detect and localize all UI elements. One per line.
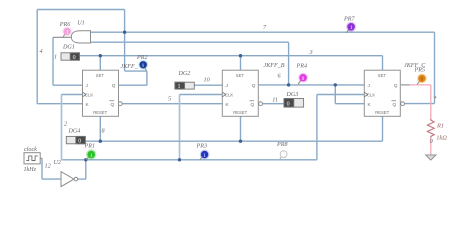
wire net5 ~Q1 to K2 [122, 103, 222, 105]
svg-text:DG1: DG1 [62, 45, 75, 51]
wire net6 Q2 to J3 [259, 84, 365, 86]
svg-text:12: 12 [45, 162, 51, 169]
junction (100.3,55.7) [99, 54, 102, 57]
junction (85.8,159.8) [84, 158, 87, 161]
wire Q1 loop vertical x=146.9 [146, 71, 148, 85]
svg-text:J: J [226, 83, 228, 88]
digital constant DG4 [66, 129, 85, 145]
svg-text:11: 11 [272, 96, 278, 103]
svg-text:1: 1 [350, 25, 353, 31]
probe PR3 tail [200, 157, 202, 159]
wire RESET riser U4 [240, 116, 242, 141]
wire R1 bottom lead [430, 138, 432, 155]
wire net12 vertical [41, 158, 43, 179]
svg-text:0: 0 [430, 138, 434, 145]
svg-text:Q: Q [251, 102, 255, 107]
svg-text:PR5: PR5 [414, 68, 426, 74]
wire Q1 output stub [118, 84, 147, 86]
svg-text:J: J [86, 83, 88, 88]
wire tie to K3 [335, 103, 364, 105]
svg-text:Q: Q [252, 83, 256, 88]
probe PR5 circle [417, 74, 427, 84]
probe PR6 tail [63, 34, 65, 37]
junction (335.3,84.9) [334, 83, 337, 86]
svg-text:PR7: PR7 [343, 16, 355, 22]
svg-text:PR4: PR4 [296, 63, 308, 69]
op-amp U1 AND gate body (left-facing) [71, 31, 90, 43]
svg-text:CLK: CLK [85, 93, 93, 98]
wire AND output horizontal y=37.3 [53, 36, 72, 38]
wire SET riser U5 [382, 56, 384, 70]
wire net4 top segment (37.2,9.5)-(124.6,9.5) [37, 9, 124, 11]
svg-text:7: 7 [263, 24, 267, 31]
svg-text:1: 1 [90, 153, 93, 159]
wire SET riser U3 [99, 56, 101, 70]
svg-text:Q: Q [394, 83, 398, 88]
wire net7 long horizontal y=32.2 [91, 31, 435, 33]
flip-flop U4 JKFF box [222, 70, 262, 116]
svg-text:0: 0 [73, 55, 76, 61]
wire AND input2 horizontal y=42.2 [91, 41, 289, 43]
wire ~Q2 to DG3 net11 [263, 103, 284, 105]
svg-text:DG3: DG3 [286, 92, 299, 98]
flip-flop U5 JKFF box [364, 70, 404, 116]
svg-text:JKFF_: JKFF_ [121, 64, 139, 70]
svg-text:SET: SET [236, 73, 245, 78]
wire CLK3 horizontal [317, 94, 364, 96]
probe PR4 tail [298, 80, 301, 84]
wire CLK riser U3 x=61.5 [61, 95, 63, 160]
svg-text:1: 1 [178, 84, 181, 90]
wire net2 to J1 [53, 84, 83, 86]
svg-text:PR2: PR2 [136, 55, 148, 61]
junction (240.5,55.7) [239, 54, 242, 57]
svg-text:2: 2 [64, 121, 67, 128]
wire AND input2 vertical x=288.6 [288, 42, 290, 85]
svg-text:CLK: CLK [225, 93, 233, 98]
svg-text:RESET: RESET [93, 110, 107, 115]
probe PR7 tail [346, 30, 349, 33]
ground [426, 155, 436, 160]
svg-text:10: 10 [204, 76, 211, 83]
wire net4 to K of U3 [37, 103, 82, 105]
probe PR6 circle [62, 27, 72, 37]
svg-text:SET: SET [96, 73, 105, 78]
wire clock line y=159.8 [62, 159, 317, 161]
svg-text:1kHz: 1kHz [24, 167, 37, 173]
junction (124.6,32.2) [123, 31, 126, 34]
junction (100.3,141.2) [99, 140, 102, 143]
flip-flop U3 JKFF box [83, 70, 123, 116]
wire CLK1 horizontal [62, 94, 83, 96]
probe PR2 circle [138, 60, 148, 70]
svg-text:1: 1 [66, 30, 69, 36]
wire ~Q3 to net7 [405, 103, 435, 105]
svg-text:SET: SET [378, 73, 387, 78]
inverter U2 [54, 160, 78, 186]
svg-text:PR1: PR1 [84, 144, 96, 150]
svg-text:PR3: PR3 [196, 143, 208, 149]
wire CLK riser U5 x=316.9 [316, 95, 318, 160]
svg-text:CLK: CLK [367, 93, 375, 98]
probe PR1 tail [86, 157, 89, 159]
svg-text:1kΩ: 1kΩ [436, 135, 447, 142]
wire net7 right vertical x=434.5 [434, 32, 436, 103]
wire CLK2 horizontal [180, 94, 223, 96]
svg-text:U1: U1 [77, 21, 84, 27]
svg-text:RESET: RESET [375, 110, 389, 115]
svg-text:0: 0 [287, 102, 290, 108]
svg-text:3: 3 [309, 49, 313, 56]
svg-text:1: 1 [54, 53, 57, 60]
junction (288.6,84.9) [287, 83, 290, 86]
junction (240.5,141.2) [239, 140, 242, 143]
wire net7 vertical x=124.6 [124, 10, 126, 72]
wire J3-K3 tie vertical x=335.3 [334, 85, 336, 104]
svg-text:PR6: PR6 [59, 22, 71, 28]
junction (179.5,159.8) [178, 158, 181, 161]
digital constant DG3 [284, 92, 304, 108]
svg-text:Q: Q [111, 102, 115, 107]
wire net2 vertical x=53 [52, 37, 54, 85]
svg-text:0: 0 [78, 139, 81, 145]
wire net8 RESET bus y=141.2 [85, 140, 382, 142]
svg-text:6: 6 [278, 72, 282, 79]
probe PR2 tail [145, 68, 147, 71]
svg-text:JKFF_B: JKFF_B [264, 63, 285, 69]
wire DG2 to J2 [194, 84, 222, 86]
digital constant DG2 [175, 71, 194, 90]
probe PR1 circle [86, 149, 96, 159]
clock source V1 [24, 147, 41, 173]
probe PR8 circle [280, 151, 287, 158]
svg-text:4: 4 [40, 48, 43, 55]
svg-text:R1: R1 [436, 122, 444, 129]
wire SET riser U4 [240, 56, 242, 70]
resistor R1 [427, 119, 447, 142]
wire inverter output [78, 178, 86, 180]
wire net12 to inverter input [42, 178, 61, 180]
wire net3 SET bus y=55.7 [80, 55, 383, 57]
svg-text:clock: clock [24, 147, 37, 153]
wire analog Q3 to R1 pink [410, 85, 431, 120]
wire CLK riser U4 x=179.5 [179, 95, 181, 160]
wire Q3 output stub [401, 84, 410, 86]
svg-text:Q: Q [112, 83, 116, 88]
probe PR5 tail [417, 81, 420, 84]
svg-text:5: 5 [168, 96, 171, 103]
probe PR7 circle [346, 22, 356, 32]
probe PR3 circle [200, 150, 210, 160]
wire clock source stub [40, 157, 42, 159]
svg-text:RESET: RESET [233, 110, 247, 115]
svg-text:J: J [368, 83, 370, 88]
digital constant DG1 [61, 45, 80, 61]
wire RESET riser U3 [99, 116, 101, 141]
svg-text:DG2: DG2 [178, 71, 191, 77]
svg-text:U2: U2 [54, 160, 61, 166]
svg-text:PR8: PR8 [276, 142, 288, 148]
probe PR4 circle [298, 73, 308, 83]
wire Q1 loop horizontal y=71.1 [125, 70, 147, 72]
wire inverter output riser x=85.8 [85, 160, 87, 179]
svg-text:DG4: DG4 [68, 129, 81, 135]
pin nub on net7 vertical [435, 96, 437, 99]
svg-text:8: 8 [102, 127, 106, 134]
wire RESET riser U5 [382, 116, 384, 141]
svg-text:Q: Q [393, 102, 397, 107]
probe PR8 tail [280, 157, 282, 160]
wire net4 left vertical (37.2,9.5)-(37.2,103.7) [36, 10, 38, 104]
